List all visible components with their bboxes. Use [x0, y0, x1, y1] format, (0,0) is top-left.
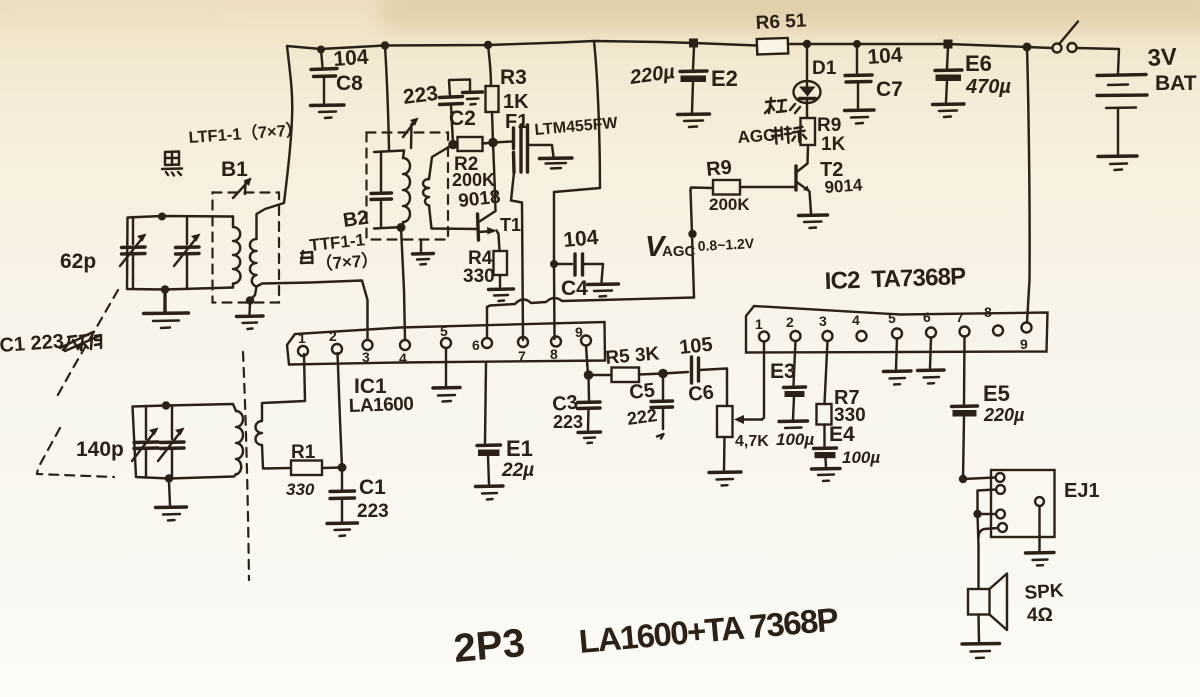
svg-text:1K: 1K — [821, 134, 846, 155]
wire B2 primary bottom rail — [374, 227, 403, 229]
connector EJ1 body — [991, 470, 1055, 537]
svg-text:220µ: 220µ — [983, 405, 1025, 425]
ground B2 core (dashed tie) — [413, 240, 434, 265]
wire D1 cathode to R9 — [806, 103, 808, 118]
svg-text:104: 104 — [333, 46, 370, 71]
svg-text:105: 105 — [678, 334, 713, 359]
inductor B1 primary — [233, 217, 240, 288]
svg-text:222: 222 — [626, 405, 659, 429]
svg-text:E3: E3 — [770, 360, 796, 383]
wire R9 to T2 collector — [806, 145, 809, 163]
svg-text:3: 3 — [819, 313, 827, 329]
ground B1 core — [237, 303, 264, 329]
EJ1 contact 2 — [978, 485, 1005, 514]
IC1 pin 7 — [518, 337, 528, 347]
IC1 pin 8 — [551, 337, 561, 347]
capacitor C1 — [327, 468, 358, 537]
IC1 pin 2 — [332, 344, 342, 354]
svg-text:C7: C7 — [876, 78, 903, 101]
dashed pointer to 140p — [37, 428, 114, 477]
svg-text:1: 1 — [298, 330, 306, 346]
node E6 tap — [944, 40, 953, 49]
wire R7 to E4 — [823, 425, 825, 447]
wire B1 secondary to IC1 pin3 — [257, 281, 368, 341]
variable capacitor 62p gang a — [120, 217, 147, 289]
node C3/R5 — [584, 370, 594, 380]
battery BAT 3V — [1097, 75, 1147, 155]
wire R3 to node B — [492, 112, 493, 143]
wire R2 to node B — [483, 143, 494, 144]
svg-text:200K: 200K — [709, 195, 750, 214]
svg-text:470µ: 470µ — [965, 76, 1011, 98]
svg-text:R1: R1 — [291, 442, 316, 463]
dashed pointer to 62p — [55, 290, 118, 400]
variable capacitor 140p gang b (trimmer) — [158, 406, 185, 479]
wire top supply bus right of R6 — [788, 44, 1052, 48]
svg-text:D1: D1 — [812, 58, 837, 79]
ground 4.7K pot — [709, 472, 741, 486]
transistor T2 9014 — [796, 164, 811, 214]
capacitor E5 (electrolytic 220u) — [952, 406, 978, 479]
wire B2 primary top rail — [374, 151, 404, 153]
node 140p bottom — [165, 474, 173, 482]
resistor R4 — [494, 251, 508, 275]
transistor T1 9018 — [478, 211, 500, 251]
svg-text:223: 223 — [357, 501, 389, 522]
capacitor B2 primary tank cap — [371, 152, 392, 228]
node B1 ground — [246, 296, 254, 304]
IC2 pin 6 — [926, 328, 936, 338]
IC2 pin 7 — [960, 327, 970, 337]
svg-text:4: 4 — [399, 350, 407, 366]
node B2 tap — [381, 41, 389, 49]
svg-text:330: 330 — [286, 480, 315, 499]
resistor R9 (1K) — [801, 118, 816, 145]
resistor R3 — [486, 86, 499, 112]
wire 62p top rail — [127, 216, 233, 290]
capacitor C3 — [578, 375, 601, 443]
capacitor E2 (electrolytic 220u) — [678, 47, 710, 127]
svg-text:100µ: 100µ — [776, 430, 814, 449]
node D1 tap — [803, 40, 811, 48]
wire IC1 pin6 AGC riser — [486, 307, 488, 338]
capacitor C6 — [663, 357, 727, 406]
resistor R5 — [612, 368, 640, 383]
capacitor E1 (electrolytic 22u) — [476, 445, 504, 500]
svg-text:9014: 9014 — [824, 175, 864, 197]
svg-text:C1: C1 — [359, 476, 386, 499]
svg-text:C1 223: C1 223 — [0, 331, 65, 357]
node C4 tap — [550, 260, 558, 268]
inductor B2 secondary — [423, 179, 429, 206]
ground IC1 pin5 — [433, 348, 460, 402]
svg-text:AGC: AGC — [737, 125, 776, 147]
resistor R9 (200K) — [713, 180, 740, 195]
node EJ1 jumper — [973, 510, 981, 518]
IC2 pin 5 — [892, 329, 902, 339]
B1 adjustable core arrow — [233, 178, 252, 199]
capacitor C2 with ground bracket — [440, 80, 483, 144]
svg-text:22µ: 22µ — [501, 460, 534, 481]
svg-text:E6: E6 — [965, 51, 992, 76]
IC2 pin 1 — [759, 332, 769, 342]
wire B2 primary bottom to IC1 pin4 — [401, 228, 405, 341]
wire bus down to F1/C4 branch — [554, 41, 600, 339]
wire AGC line with hops — [487, 298, 694, 308]
wire L2 top to IC1 pin1 — [262, 354, 305, 421]
inductor L2 (osc coupling) — [256, 421, 263, 445]
B2 adjustable core arrow — [403, 118, 419, 149]
wire B2 secondary top to C2/R2 node — [429, 145, 453, 180]
inductor B2 primary — [403, 151, 410, 227]
ground IC2 pin5 — [884, 339, 912, 385]
node E2 tap — [689, 39, 698, 48]
IC1 pin 1 — [298, 346, 308, 356]
node R3 tap — [484, 41, 492, 49]
svg-text:100µ: 100µ — [842, 448, 880, 467]
op-amp U1 IC1 LA1600 body — [287, 322, 605, 365]
wire IC2 pin2 to E3 — [794, 341, 796, 385]
node B2 primary bottom — [397, 223, 406, 232]
EJ1 contact 1 — [963, 473, 1004, 482]
svg-text:8: 8 — [550, 346, 558, 362]
svg-text:IC2 TA7368P: IC2 TA7368P — [824, 263, 966, 295]
svg-text:2: 2 — [786, 314, 794, 330]
IC2 pin 9 — [1022, 323, 1032, 333]
potentiometer 4.7K — [717, 406, 762, 470]
wire IC2 pin1 to pot wiper — [762, 342, 764, 420]
capacitor C5 — [651, 374, 673, 439]
wire B2 secondary bottom to T1 base — [429, 206, 477, 230]
svg-text:B1: B1 — [221, 158, 248, 181]
resistor R1 — [291, 461, 322, 476]
ground battery — [1098, 156, 1137, 170]
resistor R6 — [757, 38, 789, 55]
switch — [1053, 22, 1079, 53]
wire R9 left lead — [691, 188, 714, 191]
inductor osc coil (140p frame right) — [236, 411, 243, 475]
capacitor C8 — [311, 50, 345, 119]
IC2 pin 2 — [791, 331, 801, 341]
svg-text:104: 104 — [867, 44, 904, 69]
svg-text:E2: E2 — [711, 66, 738, 91]
svg-text:8: 8 — [984, 304, 992, 320]
svg-text:223: 223 — [402, 82, 440, 109]
svg-text:E5: E5 — [983, 381, 1010, 406]
wire VAGC riser — [691, 190, 695, 298]
ground 62p — [144, 293, 189, 328]
ground IC2 pin6 — [918, 338, 945, 384]
node E5/EJ1 — [959, 475, 967, 483]
inductor B1 secondary — [250, 239, 257, 287]
node R1/C1/pin2 — [338, 463, 347, 472]
op-amp U2 IC2 TA7368P body — [746, 306, 1048, 353]
svg-text:4: 4 — [852, 312, 860, 328]
svg-text:EJ1: EJ1 — [1064, 480, 1100, 502]
IC1 pin 4 — [400, 340, 410, 350]
node C2/R2/B2 — [448, 140, 458, 150]
resistor R7 — [817, 404, 832, 425]
wire T1 collector to node B — [493, 143, 496, 212]
EJ1 contact 3 — [978, 510, 1005, 519]
svg-text:C5: C5 — [628, 379, 656, 404]
svg-text:223: 223 — [553, 412, 583, 432]
dashed section divider — [243, 352, 249, 580]
wire IC2 pin3 to R7 — [825, 341, 828, 404]
ground R4 — [489, 275, 514, 301]
ground T2 emitter — [799, 215, 828, 228]
svg-text:0.8~1.2V: 0.8~1.2V — [697, 235, 755, 254]
svg-text:LA1600: LA1600 — [348, 394, 413, 417]
ground EJ1 — [1026, 553, 1055, 566]
ground 140p — [156, 482, 187, 521]
svg-text:140p: 140p — [76, 438, 124, 461]
svg-text:C2: C2 — [449, 107, 476, 130]
svg-text:62p: 62p — [60, 250, 96, 273]
wire R3 top lead — [488, 45, 491, 86]
svg-text:2P3: 2P3 — [452, 621, 527, 671]
svg-text:7: 7 — [956, 309, 964, 325]
variable capacitor 140p gang a — [132, 406, 159, 478]
wire EJ1 to SPK — [978, 514, 979, 588]
speaker SPK 4ohm — [968, 574, 1007, 643]
svg-text:T1: T1 — [500, 215, 521, 235]
wire IC2 pin7 to E5 — [963, 337, 966, 405]
node VAGC — [688, 230, 696, 238]
svg-text:SPK: SPK — [1024, 580, 1065, 604]
svg-text:5: 5 — [888, 310, 896, 326]
wire 140p frame — [133, 406, 237, 479]
svg-text:1: 1 — [755, 316, 763, 332]
svg-text:C4: C4 — [561, 277, 588, 300]
wire D1 anode lead — [806, 44, 808, 79]
svg-text:E1: E1 — [506, 436, 533, 461]
svg-text:9018: 9018 — [457, 187, 501, 212]
EJ1 contact 4 — [978, 523, 1006, 538]
svg-text:R3: R3 — [500, 66, 527, 89]
wire L2 bottom to R1 — [262, 445, 291, 469]
svg-text:BAT: BAT — [1155, 72, 1197, 95]
wire bus down to IC2 pin9 — [1027, 47, 1030, 323]
EJ1 sleeve contact — [1035, 497, 1044, 551]
IC2 pin 3 — [823, 331, 833, 341]
svg-text:4,7K: 4,7K — [735, 433, 769, 450]
node 62p bottom — [161, 285, 169, 293]
capacitor C4 — [554, 254, 619, 297]
wire switch to battery — [1077, 48, 1120, 73]
svg-text:9: 9 — [1020, 336, 1028, 352]
svg-text:3: 3 — [362, 349, 370, 365]
svg-text:1K: 1K — [503, 91, 529, 113]
svg-text:C8: C8 — [336, 72, 363, 95]
wire node to IC1 pin2 — [338, 353, 343, 468]
node 62p top — [158, 213, 166, 221]
svg-text:R9: R9 — [817, 115, 841, 136]
wire R5 leads — [589, 374, 664, 376]
wire R1 to C1 node — [322, 466, 342, 469]
wire bus down to B2 primary top — [385, 46, 389, 151]
wire R9 to T2 base — [740, 186, 796, 188]
resistor R2 — [458, 137, 483, 151]
svg-text:104: 104 — [562, 226, 599, 252]
variable capacitor 62p gang b (trimmer) — [174, 217, 201, 290]
svg-text:6: 6 — [472, 337, 480, 353]
node C5 — [658, 369, 668, 379]
IC1 pin 6 — [482, 338, 492, 348]
svg-text:C6: C6 — [687, 381, 715, 406]
ceramic filter F1 LTM455FW — [493, 125, 572, 340]
wire top supply bus left of R6 — [287, 41, 757, 49]
capacitor C7 — [845, 44, 875, 124]
svg-text:2: 2 — [329, 328, 337, 344]
label black (hei) glyph — [162, 152, 182, 176]
node switch/IC2 supply tap — [1023, 43, 1032, 52]
node R2/R3/F1/T1 — [488, 138, 498, 148]
svg-text:3V: 3V — [1147, 43, 1178, 71]
diode D1 (LED) — [790, 80, 821, 113]
capacitor E3 (electrolytic 100u) — [779, 387, 808, 428]
svg-text:R6 51: R6 51 — [755, 10, 807, 34]
transformer B1 dashed body — [213, 193, 280, 303]
wire IC1 pin6 to E1 — [485, 363, 486, 443]
svg-text:6: 6 — [923, 309, 931, 325]
ground SPK — [962, 644, 1000, 659]
svg-text:E4: E4 — [829, 423, 855, 446]
label red (hong) glyph — [765, 98, 786, 113]
IC2 pin 8 — [993, 326, 1003, 336]
capacitor E4 (electrolytic 100u) — [812, 448, 841, 481]
svg-text:5: 5 — [440, 323, 448, 339]
node 140p top — [162, 401, 170, 409]
IC1 pin 5 — [441, 338, 451, 348]
capacitor E6 (electrolytic 470u) — [933, 47, 965, 117]
label white (bai) glyph — [301, 251, 313, 263]
svg-text:9: 9 — [575, 324, 583, 340]
IC2 pin 4 — [857, 331, 867, 341]
svg-text:7: 7 — [518, 348, 526, 364]
IC1 pin 9 — [581, 336, 591, 346]
svg-text:R9: R9 — [705, 156, 733, 181]
node C7 tap — [853, 40, 861, 48]
wire B1 secondary bottom to ground node — [250, 287, 257, 301]
wire top bus down to B1 secondary — [257, 46, 293, 239]
svg-text:4Ω: 4Ω — [1027, 605, 1053, 626]
svg-text:AGC: AGC — [662, 243, 696, 260]
svg-text:330: 330 — [463, 266, 495, 287]
IC1 pin 3 — [363, 340, 373, 350]
svg-text:F1: F1 — [505, 111, 528, 133]
label dual-gang glyphs (scribbled) — [60, 332, 101, 351]
node C8 tap — [317, 46, 325, 54]
wire IC1 pin9 to C3 node — [586, 346, 588, 376]
transformer B2 dashed body — [367, 133, 449, 240]
